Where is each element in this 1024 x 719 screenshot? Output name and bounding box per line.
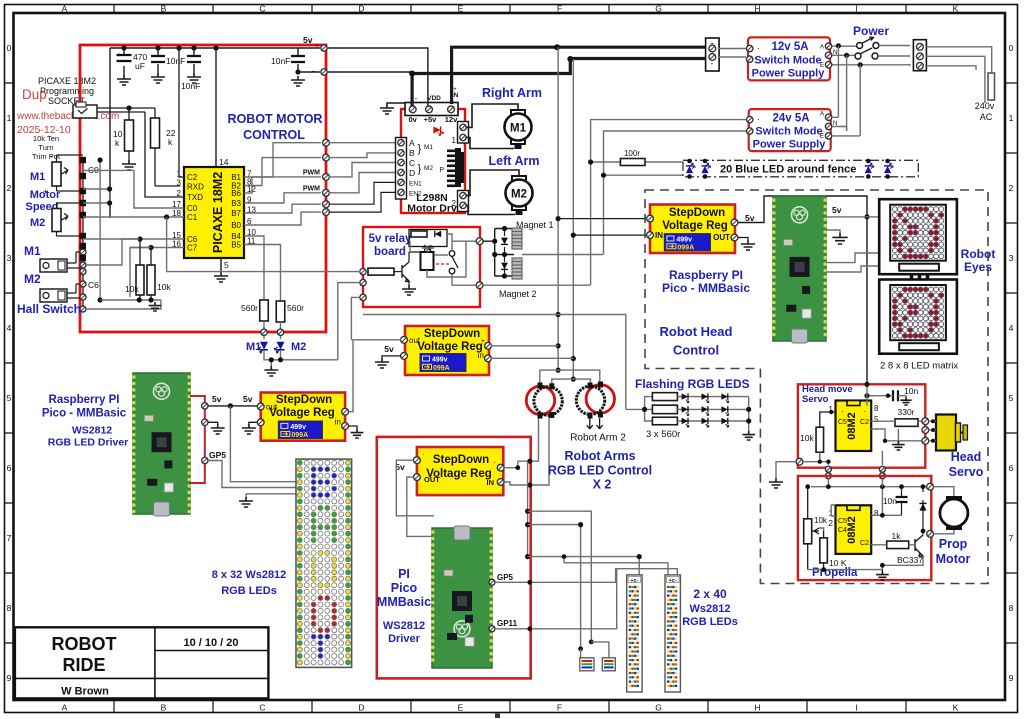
ground head mid — [892, 441, 905, 450]
svg-text:M2: M2 — [424, 165, 433, 172]
led matrix robot eye 2 — [879, 280, 957, 354]
svg-text:12v 5A: 12v 5A — [771, 41, 808, 53]
label robot arms control — [548, 449, 652, 492]
svg-text:Power Supply: Power Supply — [752, 68, 826, 80]
svg-text:PWM: PWM — [303, 170, 320, 177]
svg-text:Control: Control — [673, 343, 719, 358]
wire socket to resistors — [97, 108, 155, 112]
ground stepdown4 — [375, 356, 401, 368]
svg-text:StepDown: StepDown — [433, 454, 489, 466]
svg-text:5: 5 — [7, 393, 12, 403]
svg-text:10 / 10 / 20: 10 / 10 / 20 — [183, 637, 238, 649]
programming socket note — [38, 76, 96, 106]
led matrix robot eye 1 — [879, 199, 957, 274]
svg-text:E: E — [458, 703, 464, 713]
led red power — [433, 126, 443, 135]
mcu raspberry pi pico left — [132, 373, 191, 516]
svg-text:Driver: Driver — [388, 633, 421, 645]
svg-text:PICAXE 18M2: PICAXE 18M2 — [38, 76, 96, 86]
svg-text:C: C — [259, 4, 265, 14]
hall switch M2 — [40, 281, 86, 312]
svg-text:3: 3 — [1009, 253, 1014, 263]
prop motor — [934, 487, 968, 534]
svg-text:C: C — [409, 158, 415, 168]
svg-text:IN: IN — [655, 231, 663, 240]
connector pins between boxes 2 — [879, 466, 885, 479]
svg-text:out: out — [266, 403, 278, 412]
svg-text:Switch Mode: Switch Mode — [755, 126, 822, 138]
svg-text:10k: 10k — [125, 284, 139, 294]
switch power 2 — [832, 48, 878, 59]
wire connector feeds — [581, 642, 609, 658]
svg-text:Voltage Reg: Voltage Reg — [269, 407, 335, 419]
fence leds — [686, 159, 893, 179]
svg-text:+c-: +c- — [630, 578, 638, 584]
relay board red box — [363, 227, 480, 307]
psu 12v box — [747, 37, 838, 80]
svg-text:Prop: Prop — [939, 537, 968, 551]
ground L298 0v — [380, 103, 405, 114]
svg-text:D: D — [358, 4, 364, 14]
wire out5 to EN1 — [329, 182, 397, 204]
svg-text:10 K: 10 K — [829, 558, 847, 568]
svg-text:9: 9 — [7, 673, 12, 683]
svg-text:0v: 0v — [409, 115, 418, 124]
svg-text:-: - — [50, 151, 53, 161]
svg-text:5v: 5v — [832, 205, 842, 215]
wire out6 to EN2 — [329, 192, 397, 212]
wire C0 line — [83, 170, 184, 208]
svg-text:B: B — [161, 4, 167, 14]
svg-text:08M2: 08M2 — [846, 412, 858, 440]
slip ring pair 1 — [526, 383, 562, 419]
svg-text:10k: 10k — [800, 433, 814, 443]
chip pin5 ground — [214, 258, 229, 282]
svg-text:OUT: OUT — [713, 233, 730, 242]
wire stepdown5 left wires — [396, 460, 441, 536]
svg-text:Motor Drv: Motor Drv — [407, 203, 457, 215]
svg-text:Head: Head — [951, 450, 982, 464]
svg-text:I: I — [855, 703, 857, 713]
svg-text:B7: B7 — [231, 209, 241, 218]
pin 0v out — [312, 66, 327, 76]
resistor 1k — [887, 531, 909, 549]
svg-text:C7: C7 — [187, 244, 198, 253]
wire ring feeds top — [540, 370, 600, 386]
svg-text:B0: B0 — [231, 221, 241, 230]
svg-text:2: 2 — [7, 183, 12, 193]
svg-text:IN: IN — [487, 478, 495, 487]
svg-text:StepDown: StepDown — [276, 394, 332, 406]
element 240v — [975, 73, 995, 122]
relay coil — [421, 252, 434, 270]
L298 left pin column — [396, 138, 434, 200]
wires 24v to switches — [838, 46, 860, 136]
svg-text:5v: 5v — [212, 394, 222, 404]
svg-text:M1: M1 — [246, 341, 261, 353]
regulator stepdown4 — [401, 326, 492, 375]
title block — [15, 627, 269, 698]
wire matrix feed — [867, 216, 879, 218]
label prop motor — [936, 537, 971, 566]
svg-text:RGB LED Control: RGB LED Control — [548, 464, 652, 478]
L298 heatsink comb — [439, 148, 464, 187]
svg-text:C5: C5 — [838, 518, 847, 525]
capacitor 10n head — [864, 386, 918, 405]
svg-text:12v: 12v — [445, 115, 458, 124]
wire M1 motor loop — [466, 104, 518, 149]
wire C6 line — [83, 238, 184, 240]
labels left pico — [42, 394, 128, 449]
svg-text:RGB LEDs: RGB LEDs — [221, 585, 277, 597]
svg-text:C2: C2 — [860, 540, 869, 547]
capacitor 10nF third — [271, 48, 320, 86]
svg-text:F: F — [557, 4, 562, 14]
wire pico head to matrix1 — [826, 253, 879, 263]
svg-text:5v: 5v — [303, 35, 313, 45]
svg-text:E: E — [820, 63, 824, 69]
transistor BC337 — [897, 535, 923, 565]
svg-text:X 2: X 2 — [593, 478, 612, 492]
svg-text:A: A — [62, 4, 68, 14]
wire out1 to A — [329, 142, 397, 144]
wire to strip2 feed — [564, 557, 668, 575]
svg-text:H: H — [754, 703, 760, 713]
svg-text:240v: 240v — [975, 101, 995, 111]
wire M2 motor loop — [466, 170, 519, 215]
svg-text:board: board — [374, 246, 406, 258]
wire pwm1 to C — [329, 163, 397, 177]
pins head servo right — [922, 418, 929, 425]
diode propella — [919, 487, 926, 535]
svg-text:3 x 560r: 3 x 560r — [646, 429, 680, 440]
svg-text:100r: 100r — [624, 149, 640, 158]
svg-text:0: 0 — [1009, 43, 1014, 53]
svg-text:C2: C2 — [187, 173, 198, 182]
svg-text:B3: B3 — [231, 199, 241, 208]
wire stepdown left in2 gnd — [349, 426, 364, 438]
svg-text:10nF: 10nF — [181, 81, 200, 91]
svg-text:3: 3 — [7, 253, 12, 263]
svg-text:in: in — [478, 351, 484, 360]
svg-text:GP5: GP5 — [209, 450, 226, 460]
wire to strip1 feed — [528, 557, 640, 575]
svg-text:8 x 32 Ws2812: 8 x 32 Ws2812 — [212, 569, 287, 581]
svg-text:M1: M1 — [510, 123, 527, 135]
svg-text:G: G — [655, 4, 662, 14]
svg-text:9: 9 — [1009, 673, 1014, 683]
wire relay bottom long — [363, 315, 626, 410]
wire bus 12v vertical — [557, 47, 559, 370]
svg-text:4: 4 — [7, 323, 12, 333]
svg-text:08M2: 08M2 — [846, 516, 858, 544]
svg-text:Voltage Reg: Voltage Reg — [417, 341, 483, 353]
wire to connector1 drop — [528, 525, 581, 649]
label head move servo — [802, 384, 853, 405]
svg-text:-: - — [312, 66, 315, 76]
wire to 240v — [926, 47, 991, 103]
svg-text:Robot Head: Robot Head — [660, 324, 733, 339]
driver module L298N red box — [401, 109, 465, 213]
slip ring pair 2 — [576, 382, 614, 419]
svg-text:M2: M2 — [24, 272, 41, 286]
wire 0v thin — [328, 72, 412, 74]
relay internal wires — [410, 234, 476, 277]
regulator stepdown2 — [647, 205, 738, 254]
ground propella — [876, 570, 889, 580]
wire 5v rail top — [110, 47, 320, 49]
wire magnet2 bottom to 24v — [483, 284, 591, 286]
svg-text:1: 1 — [452, 136, 457, 145]
ground stepdown2 out — [738, 238, 755, 251]
wire pico head to matrix2 — [826, 266, 879, 272]
svg-text:8: 8 — [874, 509, 879, 518]
svg-text:F: F — [557, 703, 562, 713]
svg-text:GP5: GP5 — [497, 573, 514, 582]
ground pico left — [208, 422, 225, 434]
label 5v relay board — [369, 233, 412, 258]
svg-text:-: - — [711, 59, 714, 68]
ground leds — [264, 366, 278, 376]
bottom center mark — [495, 714, 500, 719]
led M2 blue — [275, 342, 285, 353]
svg-text:8: 8 — [874, 404, 879, 413]
svg-text:Power: Power — [853, 24, 889, 38]
pi pico mmbasic red box — [377, 437, 531, 679]
resistor 22k — [151, 108, 181, 186]
label robot motor control — [228, 112, 323, 142]
led strip 2x40 second — [665, 575, 680, 692]
wire pico 5v to stepdown — [208, 405, 257, 407]
wire TXD to socket — [145, 112, 184, 197]
wire magnet mid to 24v — [522, 254, 604, 256]
wire out2 to B — [329, 153, 397, 158]
label 8x32 — [212, 569, 287, 597]
wire relay sw to magnet2 — [452, 274, 476, 285]
head move servo red box — [798, 384, 925, 467]
wire to connector2 drop — [528, 511, 592, 642]
svg-text:7: 7 — [1009, 533, 1014, 543]
pins pico left — [202, 403, 208, 409]
flashing led network — [626, 393, 755, 440]
label robot head control — [660, 324, 733, 358]
transistor Q relay — [402, 252, 421, 295]
svg-text:Switch Mode: Switch Mode — [754, 55, 821, 67]
wire stepdown4 in2 — [491, 357, 573, 359]
trim pot note — [32, 134, 61, 161]
svg-text:M2: M2 — [511, 189, 527, 201]
svg-text:M1: M1 — [24, 244, 41, 258]
resistor 10K propella — [820, 531, 847, 570]
head servo internal wires — [867, 384, 922, 441]
svg-text:Pico: Pico — [391, 581, 418, 595]
wire switch common vertical — [99, 160, 101, 300]
wire left rail — [82, 160, 84, 309]
capacitor 10n propella — [883, 487, 908, 516]
label head servo — [949, 450, 984, 479]
svg-text:K: K — [953, 4, 959, 14]
svg-text:WS2812: WS2812 — [72, 425, 112, 437]
robot head control dashed outline — [645, 190, 988, 584]
svg-text:560r: 560r — [241, 303, 258, 313]
ground stepdown left — [242, 422, 258, 434]
svg-text:Right Arm: Right Arm — [482, 86, 542, 100]
wire gp5 pico2 — [495, 569, 677, 583]
svg-text:330r: 330r — [897, 407, 914, 417]
svg-text:·: · — [841, 407, 844, 416]
svg-text:C5: C5 — [838, 419, 847, 426]
magnet block — [483, 226, 514, 279]
svg-text:Robot Arm 2: Robot Arm 2 — [570, 433, 626, 444]
connector block 2 — [602, 658, 615, 671]
wires between servo and propella — [828, 479, 882, 487]
capacitor 470uF — [117, 48, 148, 85]
connector block 1 — [580, 658, 594, 671]
wire bus 0v vertical — [572, 59, 574, 379]
svg-text:OUT: OUT — [424, 475, 440, 484]
resistor relay base — [368, 268, 402, 275]
svg-text:Servo: Servo — [802, 394, 829, 405]
svg-text:P: P — [439, 167, 444, 174]
svg-text:WS2812: WS2812 — [383, 620, 425, 632]
resistor 560r left — [241, 300, 268, 321]
svg-text:B: B — [161, 703, 167, 713]
fence dash box — [683, 160, 918, 177]
resistor 10k head — [800, 410, 836, 462]
thick 0v bus — [412, 59, 706, 107]
svg-text:C2: C2 — [860, 419, 869, 426]
svg-text:C: C — [259, 703, 265, 713]
wire pwm2 to D — [329, 173, 397, 193]
svg-text:Magnet 2: Magnet 2 — [499, 289, 537, 299]
wire relay b to leds — [338, 283, 360, 360]
svg-text:K: K — [953, 703, 959, 713]
wire B6 to pwm1 — [244, 177, 321, 193]
wire head internal bottom — [803, 451, 882, 465]
wire pico head 5v — [826, 216, 867, 218]
svg-text:PICAXE 18M2: PICAXE 18M2 — [211, 172, 225, 253]
wire C6 to switch M1 — [86, 239, 139, 265]
svg-text:4: 4 — [1009, 323, 1014, 333]
svg-text:+: + — [117, 52, 121, 59]
L298 right pins 2 — [452, 191, 469, 212]
svg-text:5: 5 — [874, 415, 879, 424]
svg-text:Motor: Motor — [30, 189, 61, 201]
svg-text:+: + — [710, 41, 714, 48]
motor M1 — [505, 110, 532, 149]
labels pi pico mmbasic — [377, 567, 431, 645]
wire stepdown2 feeds — [558, 218, 646, 220]
wire head gnd left — [769, 462, 796, 488]
led matrix 8x32 ws2812 — [296, 459, 352, 667]
svg-text:0: 0 — [7, 43, 12, 53]
wire C2 to top — [179, 48, 184, 177]
svg-text:MMBasic: MMBasic — [377, 595, 431, 609]
pins propella right — [927, 483, 934, 490]
pico left red bracket — [190, 396, 205, 483]
motor M2 — [506, 176, 533, 215]
svg-text:10n: 10n — [904, 386, 918, 396]
svg-text:I: I — [855, 4, 857, 14]
svg-text:RGB LED Driver: RGB LED Driver — [48, 437, 129, 449]
svg-text:GP11: GP11 — [497, 619, 518, 628]
wire junction rail — [527, 461, 529, 556]
svg-text:1: 1 — [1009, 113, 1014, 123]
svg-text:RGB LEDs: RGB LEDs — [682, 616, 738, 628]
svg-text:6: 6 — [7, 463, 12, 473]
trim pot M1 — [43, 151, 83, 196]
svg-text:2 x 40: 2 x 40 — [693, 587, 727, 601]
wire C7 to switch M2 — [130, 248, 151, 298]
wire B5 to 560r2 — [244, 245, 281, 302]
svg-text:C0: C0 — [187, 204, 198, 213]
wire pico head gnd — [826, 230, 848, 244]
svg-text:Eyes: Eyes — [964, 260, 992, 274]
svg-text:C4: C4 — [838, 527, 847, 534]
svg-text:Raspberry PI: Raspberry PI — [669, 268, 743, 282]
svg-text:·: · — [493, 458, 496, 467]
svg-text:10nF: 10nF — [166, 56, 185, 66]
svg-text:D: D — [358, 703, 364, 713]
svg-text:560r: 560r — [287, 303, 304, 313]
wire C1 to relay — [167, 217, 360, 272]
svg-text:1: 1 — [7, 113, 12, 123]
svg-text:EN1: EN1 — [409, 181, 422, 188]
svg-text:3: 3 — [177, 179, 182, 188]
pins red box bottom — [264, 321, 281, 339]
resistor 100r — [588, 149, 683, 178]
svg-text:Pico - MMBasic: Pico - MMBasic — [662, 281, 750, 295]
svg-text:Robot Arms: Robot Arms — [564, 449, 635, 463]
svg-text:Programming: Programming — [40, 86, 94, 96]
svg-text:AC: AC — [980, 112, 993, 122]
svg-text:+5v: +5v — [424, 115, 438, 124]
arrows robot arm 2 — [587, 418, 603, 429]
pins relay left — [360, 268, 366, 274]
svg-text:Voltage Reg: Voltage Reg — [662, 220, 728, 232]
svg-text:Hall Switch: Hall Switch — [17, 302, 81, 316]
svg-text:A: A — [62, 703, 68, 713]
resistor 10k pulldown 1 — [125, 239, 144, 300]
svg-text:5v relay: 5v relay — [369, 233, 412, 245]
magnet coil 2 — [512, 258, 522, 279]
svg-text:2: 2 — [829, 519, 834, 528]
svg-text:PWM: PWM — [303, 186, 320, 193]
svg-text:B5: B5 — [231, 241, 241, 250]
svg-text:M2: M2 — [30, 217, 45, 229]
svg-text:+c-: +c- — [669, 578, 677, 584]
svg-text:TXD: TXD — [187, 193, 203, 202]
wire eyes link — [912, 274, 928, 280]
L298 right pins 1 — [452, 122, 469, 146]
pot 10k propella — [804, 487, 828, 570]
svg-text:10nF: 10nF — [271, 56, 290, 66]
svg-text:}: } — [418, 163, 422, 175]
wire switches to terminal right — [832, 46, 910, 66]
svg-text:14: 14 — [219, 157, 229, 167]
wire B7 to out5 — [244, 204, 321, 213]
wire stepdown4 in — [491, 345, 558, 347]
relay coil clamp box — [409, 230, 447, 252]
svg-text:M2: M2 — [291, 341, 306, 353]
svg-text:A: A — [820, 45, 824, 51]
wire stepdown2 5v riser — [738, 196, 867, 384]
svg-text:B: B — [409, 148, 415, 158]
svg-text:2: 2 — [1009, 183, 1014, 193]
propella wires — [808, 487, 927, 570]
relay switch — [436, 251, 458, 274]
svg-text:6: 6 — [1009, 463, 1014, 473]
